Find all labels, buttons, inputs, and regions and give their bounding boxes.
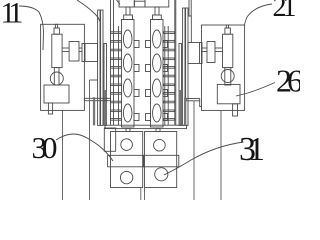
left ladder rungs: [111, 32, 122, 120]
base pin left: [126, 129, 130, 132]
right thick plate: [184, 97, 186, 125]
right guide plate pair: [183, 8, 185, 125]
bridge between top boxes: [134, 1, 145, 7]
roller ellipse R2: [153, 54, 162, 72]
left coupling: [69, 42, 79, 62]
left support bar: [84, 98, 110, 100]
right motor cap: [225, 28, 230, 34]
right stem under box: [233, 104, 238, 116]
right top post: [189, 0, 191, 43]
leader 30: [56, 134, 113, 161]
cropped leader to left top box: [117, 0, 121, 5]
left motor cylinder: [52, 34, 62, 67]
left shaft horizontal: [62, 48, 69, 52]
right shaft horizontal: [215, 48, 223, 52]
top box right: [145, 0, 169, 7]
ear lugs right column: [146, 41, 168, 121]
base pin right: [156, 129, 160, 132]
left shaft horizontal 2: [79, 48, 82, 52]
right bearing circle: [221, 70, 234, 83]
stem under left top box: [126, 7, 130, 15]
svg-text:21: 21: [273, 0, 296, 23]
left weight box: [44, 85, 69, 103]
roller ellipse R1: [153, 30, 162, 48]
left ladder rails: [104, 0, 119, 125]
left roller column: [122, 20, 135, 128]
leg left outer: [62, 110, 64, 200]
leader 31: [164, 142, 244, 175]
right motor cylinder: [223, 34, 233, 67]
leader 26: [236, 83, 275, 97]
svg-text:26: 26: [276, 62, 300, 98]
roller ellipse R4: [153, 104, 162, 122]
bolt circle upper left: [121, 139, 133, 151]
leader 21: [245, 4, 273, 26]
bolt circle lower right: [155, 168, 168, 181]
cap on left column: [124, 15, 133, 20]
legs center pair: [140, 188, 142, 201]
right shaft down: [225, 68, 231, 85]
slide band left: [108, 155, 144, 167]
roller ellipse L4: [123, 104, 132, 122]
left shaft down: [54, 68, 59, 85]
right ladder rungs: [164, 32, 175, 120]
leg right inner: [193, 101, 195, 201]
tower base band: [105, 125, 187, 128]
bottom block right: [145, 132, 177, 188]
roller ellipse R3: [153, 79, 162, 97]
bolt circle lower left: [120, 171, 132, 183]
leg right outer: [220, 110, 222, 200]
guide block under tower left: [104, 128, 115, 151]
bracket arm to left leg: [90, 79, 98, 81]
top box left: [119, 0, 134, 7]
right bearing box: [188, 43, 202, 64]
bolt circle upper right: [154, 139, 166, 151]
right support bar: [186, 99, 199, 101]
left guide plate pair: [98, 10, 100, 125]
roller ellipse L1: [123, 30, 132, 48]
cap on right column: [153, 15, 162, 20]
left motor cap: [54, 28, 59, 34]
roller ellipse L3: [123, 79, 132, 97]
right shaft horizontal 2: [202, 48, 207, 52]
leader 11: [19, 6, 44, 50]
left bearing circle: [50, 72, 63, 85]
right roller column: [151, 20, 164, 128]
right coupling: [207, 42, 215, 63]
right ladder rails: [165, 0, 182, 125]
cropped leader to left plate: [77, 0, 100, 21]
stem under right top box: [155, 7, 159, 15]
left bearing box: [82, 44, 98, 62]
left thick plate: [93, 97, 95, 125]
bottom block left: [111, 132, 143, 188]
right frame: [202, 25, 245, 110]
slide band right: [144, 155, 179, 167]
leg left inner: [89, 80, 91, 200]
right motor pin: [226, 25, 228, 28]
ear lugs left column: [134, 41, 139, 121]
left frame: [41, 24, 85, 110]
left motor pin: [55, 24, 57, 28]
right weight box: [217, 84, 240, 103]
left stem under box: [48, 103, 52, 114]
roller ellipse L2: [123, 54, 132, 72]
